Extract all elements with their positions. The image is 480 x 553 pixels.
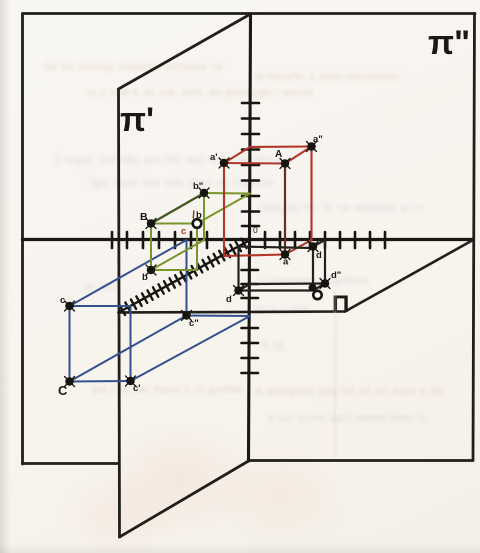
wire a to Yb diagonal (285, 240, 312, 255)
node a (280, 250, 290, 260)
node c' (126, 376, 136, 386)
plane frame: outer right edge (473, 14, 475, 461)
node b' donut marker (193, 219, 202, 228)
svg-text:a': a' (210, 152, 218, 163)
wire c'' to Y vertical (186, 240, 188, 316)
svg-text:b: b (196, 210, 202, 221)
svg-text:π': π' (120, 101, 154, 139)
svg-text:d: d (316, 250, 322, 261)
node d (308, 242, 318, 252)
node c'' (182, 311, 192, 321)
svg-text:b: b (142, 272, 148, 283)
wire A to a vertical dark (284, 164, 286, 255)
node d'' (320, 279, 330, 289)
svg-text:c': c' (133, 383, 141, 394)
wire C to c'' diagonal (70, 316, 187, 382)
green box B edges (151, 193, 250, 270)
node a'' (307, 142, 317, 152)
svg-text:A: A (275, 149, 282, 160)
wire b to Yb diagonal (151, 240, 204, 270)
svg-text:d": d" (331, 270, 341, 281)
svg-text:π": π" (428, 24, 470, 62)
svg-text:c: c (181, 226, 186, 237)
svg-text:c: c (60, 295, 65, 306)
plane pi front edge (119, 312, 346, 313)
wire B to b vertical (150, 224, 152, 271)
black box D edges (239, 240, 326, 291)
wire c'' to Z horizontal (187, 315, 251, 318)
svg-text:B: B (140, 211, 148, 223)
node b (146, 265, 156, 275)
svg-text:C: C (58, 383, 68, 398)
wire b'' to Yb vertical (203, 193, 205, 240)
x axis hatch ticks (120, 239, 247, 315)
node d' (234, 286, 244, 296)
wire c' to X vertical (130, 306, 132, 381)
vertex dots (65, 142, 331, 387)
svg-text:a": a" (313, 134, 323, 145)
wire d' to D bottom (239, 289, 314, 291)
node A (280, 159, 290, 169)
faint bleed-through text lines (44, 62, 224, 73)
y axis ground line (23, 238, 474, 241)
wire d to D vertical (312, 247, 314, 291)
wire X to d top (239, 247, 314, 249)
y axis ticks right (265, 232, 385, 248)
plane frame: outer top edge (23, 12, 475, 15)
plane pi' bottom diagonal edge (120, 461, 249, 537)
wire a' to Zt diagonal (224, 147, 250, 163)
y axis ticks left (112, 232, 207, 248)
wire b' to Xb vertical (196, 224, 198, 271)
node D circled (309, 284, 316, 291)
wire A to a'' diagonal (285, 147, 312, 164)
wire X to d' vertical (237, 247, 239, 291)
z axis fold line (249, 14, 251, 461)
plane frame: outer left edge (21, 14, 24, 465)
wire Y to d'' vertical (324, 240, 326, 284)
wire c to X on x axis (70, 305, 131, 307)
wire c' to Z diagonal (131, 316, 251, 381)
node D donut marker (313, 291, 321, 299)
svg-text:b": b" (193, 181, 203, 192)
plane frame: bottom-left edge (23, 462, 119, 465)
z axis ticks below origin (242, 270, 259, 373)
svg-text:a: a (283, 257, 289, 268)
wire C to c' bottom (70, 380, 131, 383)
plane frame: bottom-right edge (249, 459, 474, 462)
wire B to b'' diagonal dark green (151, 193, 204, 224)
wire d to Y diagonal (313, 240, 325, 247)
node c (65, 301, 75, 311)
wire c to C vertical (69, 306, 71, 382)
wire b' to Zt diagonal (197, 194, 250, 224)
wire Zt to a'' top back (250, 145, 312, 148)
wire Z to d'' horizontal (250, 282, 325, 285)
wire a' to A top front (224, 162, 285, 165)
node b'' (199, 188, 209, 198)
z axis ticks above origin (242, 103, 259, 226)
x axis line (119, 240, 251, 313)
svg-text:d: d (226, 294, 232, 305)
blue box C edges (70, 240, 251, 382)
plane pi' top diagonal edge (119, 14, 251, 89)
wire a'' down to y axis (310, 147, 312, 241)
wire a' down to x axis (223, 163, 225, 256)
wire D to d'' diagonal (313, 284, 325, 291)
node B (146, 219, 156, 229)
wire d' to Z diagonal (239, 284, 251, 291)
plane pi bend diagonal (345, 240, 473, 312)
wire b to Xb bottom (151, 269, 197, 271)
plane pi' left fold edge (119, 89, 120, 537)
red box A edges (224, 147, 312, 257)
node a' (219, 158, 229, 168)
svg-text:c": c" (189, 318, 199, 329)
wire B to b' top (151, 223, 197, 225)
wire Xb to a bottom (224, 255, 285, 257)
node C (65, 377, 75, 387)
wire b'' to Zt horizontal (204, 192, 250, 195)
wire c to Y diagonal (70, 240, 187, 306)
svg-text:0: 0 (253, 225, 258, 235)
